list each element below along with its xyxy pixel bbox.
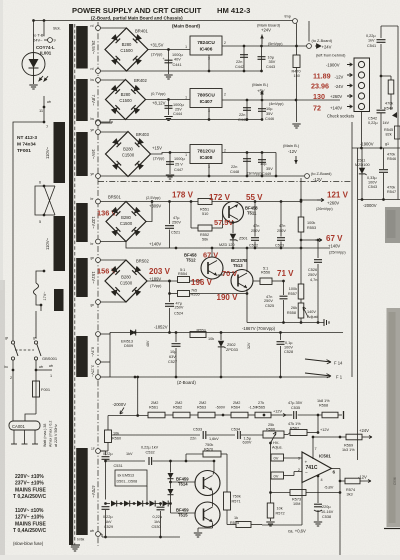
op-amp IC501 741C <box>302 452 332 483</box>
svg-text:C531: C531 <box>114 464 123 468</box>
transformer primary winding lower 110V <box>54 216 66 271</box>
svg-text:151V~: 151V~ <box>91 271 96 284</box>
resistor R572 10k <box>270 493 272 504</box>
svg-text:(left from behind): (left from behind) <box>316 53 346 58</box>
capacitor C443 <box>261 46 263 71</box>
svg-text:Z502: Z502 <box>227 343 236 347</box>
svg-text:+12V: +12V <box>320 428 329 432</box>
svg-text:190 V: 190 V <box>217 293 239 302</box>
svg-text:2: 2 <box>10 376 12 380</box>
svg-text:24V~: 24V~ <box>33 38 43 43</box>
svg-text:IC501: IC501 <box>319 454 331 459</box>
svg-text:0,22µ: 0,22µ <box>153 515 163 519</box>
svg-text:(2,5Vpp): (2,5Vpp) <box>146 196 161 200</box>
svg-text:10k: 10k <box>208 337 214 341</box>
resistor R559 10k <box>190 332 206 338</box>
svg-text:MAINS FUSE: MAINS FUSE <box>15 522 47 528</box>
svg-text:(5mVpp): (5mVpp) <box>268 42 283 46</box>
svg-text:70 V: 70 V <box>222 269 237 278</box>
svg-text:wh: wh <box>39 365 43 369</box>
svg-text:203 V: 203 V <box>149 267 171 276</box>
svg-text:0,22µ: 0,22µ <box>103 452 113 456</box>
terminal to Z-Board -12V <box>305 174 310 179</box>
svg-text:+12V: +12V <box>273 410 282 414</box>
wire BR402 AC top <box>100 79 126 81</box>
svg-text:T511: T511 <box>247 211 257 216</box>
svg-text:C521: C521 <box>171 231 180 235</box>
svg-text:22n: 22n <box>190 437 196 441</box>
transistor T513 BC237B <box>231 270 253 292</box>
svg-text:100V: 100V <box>368 181 377 185</box>
wire Z-board bottom rail <box>110 376 330 378</box>
capacitor C442 <box>243 46 245 71</box>
svg-text:C449: C449 <box>262 172 271 176</box>
svg-text:gn: gn <box>91 303 95 307</box>
resistor R569 1k3 <box>340 436 346 438</box>
svg-text:56k: 56k <box>202 238 208 242</box>
svg-text:+24V: +24V <box>359 428 369 433</box>
fuse F001 <box>33 381 40 397</box>
transformer secondary winding 8,3V/3,15V <box>76 336 88 377</box>
svg-text:C528: C528 <box>284 350 293 354</box>
svg-text:57.5V: 57.5V <box>214 218 233 227</box>
capacitor C447 <box>169 153 171 175</box>
svg-text:1k: 1k <box>234 516 238 520</box>
svg-text:-5,8V: -5,8V <box>324 485 334 490</box>
wire +140V tap <box>300 239 303 242</box>
svg-text:+24V: +24V <box>322 45 332 50</box>
wire T512 collector <box>211 248 213 257</box>
svg-text:1k8 1%: 1k8 1% <box>317 399 330 403</box>
svg-text:M 74x34: M 74x34 <box>17 142 36 148</box>
svg-text:196 V: 196 V <box>191 278 213 287</box>
svg-text:HV-: HV- <box>273 441 280 445</box>
svg-text:630V: 630V <box>243 441 252 445</box>
resistor R557 100k <box>300 248 302 284</box>
bridge rectifier BR402 <box>106 80 146 120</box>
svg-text:-1852V: -1852V <box>154 325 168 330</box>
svg-text:gn: gn <box>33 336 37 340</box>
svg-text:0,22µ: 0,22µ <box>103 515 113 519</box>
wire -12V output <box>222 152 276 154</box>
svg-text:R558: R558 <box>287 311 296 315</box>
svg-text:3: 3 <box>298 457 300 461</box>
svg-text:1kV: 1kV <box>105 520 112 524</box>
wire +5V output <box>222 99 340 101</box>
svg-text:10µ: 10µ <box>260 162 267 166</box>
capacitor C522 <box>254 202 256 237</box>
svg-text:R553: R553 <box>307 226 316 230</box>
svg-text:GBS001: GBS001 <box>42 356 58 361</box>
transformer secondary winding 7,8V~ <box>76 79 88 121</box>
svg-text:(3mVpp): (3mVpp) <box>247 172 262 176</box>
wires below switch <box>12 360 14 421</box>
svg-text:C538: C538 <box>322 515 331 519</box>
resistor R470 <box>296 46 298 55</box>
wire BR501 AC top <box>100 201 126 203</box>
ground C538 <box>314 521 322 523</box>
svg-text:22n: 22n <box>231 165 237 169</box>
svg-text:1F: 1F <box>91 447 95 451</box>
svg-text:IL001: IL001 <box>40 51 52 56</box>
svg-text:br/bk: br/bk <box>77 538 85 542</box>
capacitor C525 <box>283 281 285 295</box>
wire R552 stub <box>190 202 192 229</box>
wire cathode rail <box>247 322 324 324</box>
svg-text:C1500: C1500 <box>120 221 133 226</box>
svg-text:110V~: 110V~ <box>45 237 50 249</box>
svg-text:+140V: +140V <box>149 242 161 247</box>
svg-text:3,15V~: 3,15V~ <box>91 365 95 378</box>
CRT section border <box>351 122 353 377</box>
svg-text:27k: 27k <box>258 401 264 405</box>
wire BR502 AC top <box>100 259 126 261</box>
svg-text:HM 412-3: HM 412-3 <box>217 6 250 15</box>
svg-text:71 V: 71 V <box>277 269 294 278</box>
svg-text:3k3: 3k3 <box>347 493 353 497</box>
svg-text:2: 2 <box>224 41 226 45</box>
svg-text:470V~: 470V~ <box>91 485 96 498</box>
svg-text:(Z-Board): (Z-Board) <box>177 380 196 385</box>
svg-text:(1Vpp): (1Vpp) <box>153 157 165 161</box>
svg-text:(7Vpp): (7Vpp) <box>150 284 162 288</box>
svg-text:(Main B.): (Main B.) <box>252 82 269 87</box>
transformer secondary winding 470V~ <box>76 448 88 535</box>
capacitor C526 <box>317 240 319 258</box>
bridge rectifier BR403 <box>106 132 151 177</box>
svg-text:7812CU: 7812CU <box>197 149 215 155</box>
capacitor C448 <box>246 153 248 177</box>
svg-text:IC406: IC406 <box>200 47 213 53</box>
svg-text:250V: 250V <box>308 273 317 277</box>
wire BR502 AC bottom <box>100 301 126 303</box>
resistor R555 7k5 <box>178 291 190 297</box>
svg-text:-1867V (70mVpp): -1867V (70mVpp) <box>242 326 276 331</box>
svg-text:rd: rd <box>91 67 94 71</box>
svg-text:1: 1 <box>185 96 187 100</box>
svg-text:-2000V: -2000V <box>363 203 377 208</box>
transformer terminals <box>96 26 101 31</box>
svg-text:237V~ ±10%: 237V~ ±10% <box>15 481 44 487</box>
svg-text:-1900V: -1900V <box>360 142 374 147</box>
svg-text:-1900V: -1900V <box>326 63 340 68</box>
regulator IC408 7812CU <box>190 145 222 164</box>
ground C441 <box>164 74 172 76</box>
svg-text:23.96: 23.96 <box>311 82 329 91</box>
svg-text:5: 5 <box>39 220 41 224</box>
svg-text:6: 6 <box>333 470 336 475</box>
svg-text:IC407: IC407 <box>200 99 213 105</box>
svg-text:R552: R552 <box>200 233 209 237</box>
wire BR401 AC bottom <box>100 70 262 72</box>
svg-text:47µ 35V: 47µ 35V <box>288 401 303 405</box>
svg-text:D509: D509 <box>124 344 133 348</box>
wire T513 emitter <box>246 289 248 294</box>
svg-text:16V~: 16V~ <box>91 149 96 159</box>
ground optocoupler <box>29 84 37 86</box>
switch GBS001 pole 2 <box>34 341 37 344</box>
svg-text:26,5V~: 26,5V~ <box>91 41 96 55</box>
svg-text:BR403: BR403 <box>136 132 149 137</box>
svg-text:ye: ye <box>91 128 95 132</box>
svg-text:C525: C525 <box>265 304 274 308</box>
svg-text:750k: 750k <box>205 443 213 447</box>
resistor R571 750k <box>224 492 231 510</box>
svg-text:67 V: 67 V <box>203 251 218 260</box>
wire -1900V row <box>352 147 400 149</box>
svg-text:R561: R561 <box>149 406 158 410</box>
svg-text:R573: R573 <box>292 498 301 502</box>
svg-text:C530: C530 <box>152 525 161 529</box>
svg-text:R551: R551 <box>200 208 209 212</box>
svg-text:132V~: 132V~ <box>91 216 96 229</box>
svg-text:72: 72 <box>313 104 321 113</box>
svg-text:B280: B280 <box>122 42 132 47</box>
svg-text:wh: wh <box>49 364 53 368</box>
svg-text:+140V: +140V <box>328 244 340 249</box>
svg-text:C536: C536 <box>393 477 397 485</box>
svg-text:wh: wh <box>90 529 94 533</box>
svg-text:(Main Board): (Main Board) <box>172 24 201 29</box>
svg-text:110V~: 110V~ <box>45 146 50 158</box>
svg-text:10M: 10M <box>293 502 300 506</box>
transformer secondary winding 16V~ <box>76 132 88 176</box>
svg-text:1: 1 <box>185 153 187 157</box>
chassis ground cathode rail <box>323 319 325 326</box>
svg-text:250V: 250V <box>251 229 260 233</box>
svg-text:MZD 120: MZD 120 <box>219 243 235 247</box>
resistor R552 56k <box>198 225 212 231</box>
svg-text:R565: R565 <box>256 406 265 410</box>
terminal tmp <box>293 19 298 24</box>
svg-text:C1500: C1500 <box>120 281 133 286</box>
svg-text:100k: 100k <box>289 287 297 291</box>
wire +260V tap <box>301 199 317 201</box>
capacitor C445 <box>246 100 248 120</box>
wire T512 emitter to T513 <box>218 274 225 276</box>
ground R572 <box>266 521 274 523</box>
svg-text:(to Z-Board): (to Z-Board) <box>311 172 332 176</box>
regulator IC407 7805CU <box>190 89 222 108</box>
svg-text:ye: ye <box>91 172 95 176</box>
resistor R574 2k3 <box>345 478 360 484</box>
svg-text:63V: 63V <box>169 355 176 359</box>
svg-text:6: 6 <box>39 181 41 185</box>
svg-text:wh: wh <box>47 100 51 104</box>
wire BR502 output <box>168 280 171 283</box>
svg-text:B280: B280 <box>121 275 131 280</box>
wire terminal 11 <box>43 96 45 122</box>
svg-text:250V: 250V <box>264 299 273 303</box>
wire T511 base <box>222 212 224 228</box>
svg-text:7805CU: 7805CU <box>197 93 215 99</box>
svg-text:2: 2 <box>224 149 226 153</box>
svg-text:C534: C534 <box>231 428 240 432</box>
svg-text:35V: 35V <box>266 167 273 171</box>
svg-text:Watt (max.) 38: Watt (max.) 38 <box>43 424 47 447</box>
svg-text:(4mVpp): (4mVpp) <box>269 102 284 106</box>
svg-text:IC408: IC408 <box>200 155 213 161</box>
svg-text:bu: bu <box>91 78 95 82</box>
svg-text:F001: F001 <box>41 387 51 392</box>
wire op-amp output <box>332 468 341 470</box>
wire op-amp pin4 <box>317 475 320 478</box>
transformer secondary winding 151V~ <box>76 258 88 297</box>
svg-text:510: 510 <box>202 212 208 216</box>
svg-text:1k3 1%: 1k3 1% <box>342 448 355 452</box>
svg-text:R546: R546 <box>387 157 396 161</box>
capacitor C524 <box>169 281 171 302</box>
zener Z502 ZPD33 <box>220 333 222 341</box>
svg-text:172 V: 172 V <box>209 193 231 202</box>
resistor R560 10k <box>105 430 112 443</box>
diode D509 EM513 <box>130 330 136 336</box>
svg-text:8x EM513: 8x EM513 <box>118 474 135 478</box>
wire to Z-Board off-page <box>308 21 310 42</box>
wire +309V rail <box>146 202 152 222</box>
svg-text:R556: R556 <box>261 271 270 275</box>
svg-text:C543: C543 <box>368 185 377 189</box>
svg-text:0V: 0V <box>274 456 279 461</box>
svg-text:R560: R560 <box>112 437 121 441</box>
capacitor C441 <box>168 50 170 75</box>
svg-text:10µ: 10µ <box>266 107 273 111</box>
svg-text:R571: R571 <box>232 500 241 504</box>
svg-text:−: − <box>305 472 308 477</box>
svg-text:B280: B280 <box>123 147 133 152</box>
svg-text:rd: rd <box>91 24 94 28</box>
ground T515 <box>194 532 202 534</box>
wire F14 arrow <box>305 359 331 364</box>
svg-text:+260V: +260V <box>327 201 339 206</box>
svg-text:178 V: 178 V <box>172 191 194 200</box>
svg-text:C527: C527 <box>168 360 177 364</box>
wire winding taps to rails <box>100 333 110 335</box>
svg-text:1000µ: 1000µ <box>174 157 185 161</box>
check socket 1 <box>358 61 364 67</box>
svg-text:-12V: -12V <box>288 149 297 154</box>
svg-text:10µ: 10µ <box>170 350 177 354</box>
svg-text:tmp: tmp <box>285 15 291 19</box>
svg-text:35V: 35V <box>266 112 273 116</box>
svg-text:Stck.: Stck. <box>53 27 61 31</box>
svg-text:(26mVpp): (26mVpp) <box>316 207 333 211</box>
svg-text:R562: R562 <box>173 406 182 410</box>
svg-text:130: 130 <box>313 92 325 101</box>
svg-text:R545: R545 <box>384 128 393 132</box>
svg-text:F 1: F 1 <box>336 375 343 380</box>
wire -1900V vertical <box>361 112 363 149</box>
svg-text:ca. +0,6V: ca. +0,6V <box>288 529 306 534</box>
resistor R544 470k <box>380 75 383 78</box>
svg-text:C532: C532 <box>146 451 155 455</box>
svg-text:R569: R569 <box>344 444 353 448</box>
svg-text:1kV: 1kV <box>383 121 390 125</box>
wire BR403 AC top <box>100 131 128 133</box>
svg-text:R568: R568 <box>319 404 328 408</box>
resistor R573 10M <box>339 491 342 494</box>
wire IC408 pin3 <box>208 164 210 177</box>
ground R470 <box>292 123 300 125</box>
wire +24V output <box>222 45 307 47</box>
svg-text:C523: C523 <box>275 244 284 248</box>
zener Z501 MZD120 <box>232 223 234 234</box>
svg-text:BR401: BR401 <box>135 29 148 34</box>
svg-text:C447: C447 <box>174 168 183 172</box>
svg-text:127V~ ±10%: 127V~ ±10% <box>15 515 44 521</box>
transformer core dashed line <box>74 24 76 545</box>
svg-text:7,8V~: 7,8V~ <box>91 94 96 106</box>
bridge rectifier BR502 <box>105 260 147 302</box>
svg-text:B280: B280 <box>121 92 131 97</box>
svg-text:7824CU: 7824CU <box>197 40 215 46</box>
check socket 5 <box>358 103 364 109</box>
transformer primary winding 17V <box>54 289 64 311</box>
svg-text:750k: 750k <box>233 495 241 499</box>
svg-text:40V: 40V <box>174 58 181 62</box>
bridge rectifier BR401 <box>105 28 148 71</box>
wire BR501 AC bottom <box>100 241 126 243</box>
svg-text:C522: C522 <box>249 244 258 248</box>
wire F1 arrow <box>305 373 331 378</box>
svg-text:(to Z-Board): (to Z-Board) <box>312 39 333 43</box>
svg-text:COY74-L: COY74-L <box>36 45 55 50</box>
node top-left <box>32 19 35 22</box>
svg-text:R557: R557 <box>288 292 297 296</box>
svg-text:+: + <box>163 57 165 61</box>
svg-text:+5V: +5V <box>257 89 265 94</box>
svg-text:Z501: Z501 <box>239 237 248 241</box>
wire C533 row <box>112 434 201 436</box>
svg-text:T512: T512 <box>186 258 196 263</box>
svg-text:1: 1 <box>50 374 52 378</box>
resistor R551 510 <box>198 199 212 205</box>
svg-text:C1500: C1500 <box>119 98 132 103</box>
svg-text:250V: 250V <box>175 306 184 310</box>
wire -12V to Z-board <box>276 153 304 177</box>
svg-text:C444: C444 <box>173 112 182 116</box>
svg-text:1000µ: 1000µ <box>172 53 183 57</box>
wire -2000V rail <box>358 199 400 201</box>
svg-text:R564: R564 <box>231 406 240 410</box>
svg-text:250V: 250V <box>172 221 181 225</box>
svg-text:1kV: 1kV <box>126 452 133 456</box>
bridge rectifier BR501 <box>106 202 146 242</box>
wire op-amp pin3 input <box>284 457 303 459</box>
check socket arrows <box>347 63 353 66</box>
wire BR402 output <box>146 99 191 101</box>
svg-text:-2000V: -2000V <box>113 402 127 407</box>
svg-text:32V: 32V <box>247 342 251 349</box>
svg-text:-12V: -12V <box>335 75 344 80</box>
svg-text:(Main B.): (Main B.) <box>283 143 300 148</box>
diode row D50x <box>106 503 111 505</box>
svg-text:67 V: 67 V <box>326 234 343 243</box>
svg-text:100V: 100V <box>284 346 293 350</box>
wire T514 base <box>171 481 196 483</box>
svg-text:741C: 741C <box>306 465 318 471</box>
svg-text:B280: B280 <box>121 215 131 220</box>
svg-text:2M2: 2M2 <box>199 401 206 405</box>
wire T515 base <box>171 512 196 514</box>
svg-text:C535: C535 <box>291 406 300 410</box>
svg-text:48V: 48V <box>146 340 150 347</box>
wire BR403 AC bottom <box>100 175 276 177</box>
svg-text:220µ: 220µ <box>322 505 331 509</box>
wire -2000V rail bottom <box>108 415 148 417</box>
check socket 3 <box>358 82 364 88</box>
resistor R558 26k potentiometer <box>298 303 304 318</box>
